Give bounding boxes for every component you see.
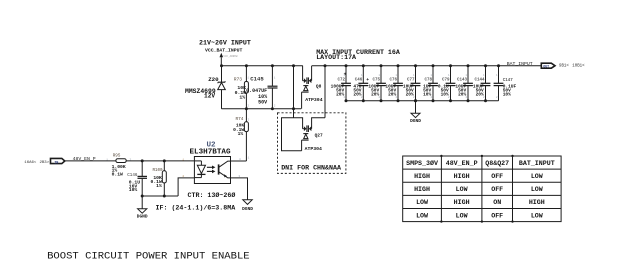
svg-text:C147: C147 bbox=[503, 79, 514, 83]
svg-text:C46: C46 bbox=[355, 79, 363, 83]
svg-text:ATP304: ATP304 bbox=[305, 146, 322, 152]
svg-text:C146: C146 bbox=[127, 174, 138, 178]
svg-text:R100: R100 bbox=[153, 169, 164, 173]
svg-text:DGND: DGND bbox=[410, 118, 421, 124]
svg-text:+: + bbox=[366, 78, 369, 83]
svg-text:ON: ON bbox=[493, 198, 501, 206]
svg-text:BOOST CIRCUIT POWER INPUT ENAB: BOOST CIRCUIT POWER INPUT ENABLE bbox=[47, 250, 250, 262]
svg-text:SMPS_3ØV: SMPS_3ØV bbox=[406, 159, 438, 167]
svg-text:50V: 50V bbox=[258, 99, 267, 105]
svg-text:Z20: Z20 bbox=[208, 76, 219, 83]
svg-text:C145: C145 bbox=[250, 75, 264, 82]
svg-text:R95: R95 bbox=[113, 154, 121, 158]
svg-text:ATP304: ATP304 bbox=[305, 97, 322, 103]
svg-text:EL3H7BTAG: EL3H7BTAG bbox=[190, 149, 231, 157]
svg-text:Q27: Q27 bbox=[315, 132, 323, 138]
svg-text:OFF: OFF bbox=[491, 211, 503, 219]
svg-text:C78: C78 bbox=[424, 79, 432, 83]
svg-text:HIGH: HIGH bbox=[414, 185, 430, 193]
svg-text:+: + bbox=[344, 72, 347, 77]
svg-text:C79: C79 bbox=[442, 79, 450, 83]
svg-text:1%: 1% bbox=[156, 183, 162, 189]
svg-text:2: 2 bbox=[182, 175, 184, 178]
svg-text:21V~26V INPUT: 21V~26V INPUT bbox=[199, 39, 251, 47]
svg-text:LOW: LOW bbox=[416, 211, 428, 219]
svg-text:DGND: DGND bbox=[137, 214, 148, 220]
svg-text:BAT_INPUT: BAT_INPUT bbox=[507, 61, 533, 67]
svg-text:0.1W: 0.1W bbox=[112, 172, 123, 178]
svg-text:LOW: LOW bbox=[416, 198, 428, 206]
svg-text:C77: C77 bbox=[407, 79, 415, 83]
svg-text:LOW: LOW bbox=[531, 185, 543, 193]
svg-text:48V_EN_P: 48V_EN_P bbox=[73, 156, 96, 162]
svg-text:IF: (24-1.1)/6=3.8MA: IF: (24-1.1)/6=3.8MA bbox=[156, 204, 236, 212]
svg-text:OUT: OUT bbox=[543, 64, 549, 68]
svg-text:16A6<: 16A6< bbox=[24, 160, 37, 165]
svg-text:2B3>: 2B3> bbox=[40, 160, 50, 165]
svg-text:1: 1 bbox=[106, 158, 108, 161]
svg-text:1%: 1% bbox=[239, 95, 245, 101]
svg-text:C144: C144 bbox=[474, 79, 485, 83]
svg-text:IN: IN bbox=[54, 161, 58, 165]
svg-text:10%: 10% bbox=[503, 91, 511, 97]
svg-text:10B1<: 10B1< bbox=[572, 64, 585, 69]
svg-text:48V_EN_P: 48V_EN_P bbox=[446, 159, 478, 167]
svg-text:HIGH: HIGH bbox=[454, 172, 470, 180]
svg-text:Q8: Q8 bbox=[316, 83, 322, 89]
svg-text:R73: R73 bbox=[234, 77, 243, 83]
svg-text:1: 1 bbox=[182, 158, 184, 161]
svg-text:12V: 12V bbox=[204, 93, 215, 100]
svg-text:LOW: LOW bbox=[456, 185, 468, 193]
svg-text:C72: C72 bbox=[337, 79, 345, 83]
svg-text:LOW: LOW bbox=[456, 211, 468, 219]
svg-text:Q8&Q27: Q8&Q27 bbox=[485, 159, 509, 167]
svg-text:C76: C76 bbox=[389, 79, 397, 83]
svg-text:LOW: LOW bbox=[531, 211, 543, 219]
svg-text:9B1<: 9B1< bbox=[559, 64, 569, 69]
svg-text:HIGH: HIGH bbox=[454, 198, 470, 206]
svg-text:2: 2 bbox=[130, 158, 132, 161]
svg-text:R74: R74 bbox=[236, 117, 244, 122]
svg-text:LOW: LOW bbox=[531, 172, 543, 180]
svg-text:HIGH: HIGH bbox=[414, 172, 430, 180]
svg-text:CTR: 13Ø~26Ø: CTR: 13Ø~26Ø bbox=[188, 191, 236, 199]
svg-text:3: 3 bbox=[238, 175, 240, 178]
svg-text:10%: 10% bbox=[129, 187, 138, 193]
svg-text:DGND: DGND bbox=[242, 206, 253, 212]
svg-text:C75: C75 bbox=[372, 79, 380, 83]
svg-text:OFF: OFF bbox=[491, 172, 503, 180]
svg-text:1%: 1% bbox=[238, 131, 244, 137]
svg-text:DNI FOR CHN&NAA: DNI FOR CHN&NAA bbox=[281, 163, 341, 171]
svg-text:HIGH: HIGH bbox=[529, 198, 545, 206]
svg-text:VCC_BAT_INPUT: VCC_BAT_INPUT bbox=[205, 47, 243, 53]
svg-text:VCC_ARROW: VCC_ARROW bbox=[223, 55, 237, 58]
svg-text:BAT_INPUT: BAT_INPUT bbox=[519, 159, 555, 167]
svg-text:LAYOUT:17A: LAYOUT:17A bbox=[316, 53, 356, 61]
svg-text:OFF: OFF bbox=[491, 185, 503, 193]
svg-text:4: 4 bbox=[239, 158, 241, 161]
svg-text:C143: C143 bbox=[457, 79, 468, 83]
